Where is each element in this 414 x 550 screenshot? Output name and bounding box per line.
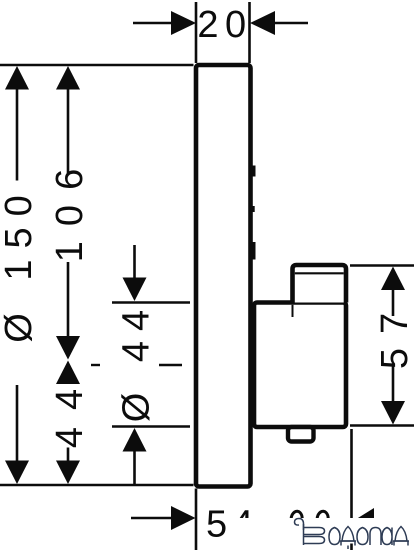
bottom dim: right extension line	[350, 429, 353, 550]
dim 57: lower line	[392, 366, 395, 403]
dim 20: left extension line	[195, 2, 198, 63]
dim 106: top arrow	[56, 66, 80, 90]
dim 106: lower line	[67, 262, 70, 338]
wall plate (side view, 20mm thick)	[196, 65, 251, 487]
bottom dim: leader line	[131, 517, 180, 520]
dim 106/44: bowtie upper arrow	[56, 336, 80, 360]
dim Ø44: bottom tick line	[112, 425, 190, 428]
extension line bottom-left (y485)	[0, 484, 194, 487]
dim 106: upper line	[67, 88, 70, 173]
button chamfer line	[295, 272, 344, 274]
plate edge clip bump 1	[252, 166, 256, 177]
letter е	[382, 528, 392, 546]
knob body (side view)	[254, 303, 346, 428]
letter В body	[304, 524, 325, 545]
svg-text:106: 106	[49, 154, 91, 262]
letter В swash	[295, 519, 304, 531]
letter о	[329, 528, 340, 545]
centerline dash 2	[159, 364, 182, 366]
svg-text:57: 57	[374, 299, 414, 369]
dim 20: left leader line	[133, 22, 180, 25]
dim 44 left: lower line	[67, 448, 70, 463]
dim Ø44: bottom arrow (up)	[123, 428, 147, 452]
bottom tab of knob	[288, 427, 314, 442]
dim 20: right leader line	[266, 22, 308, 25]
letter л	[370, 528, 381, 546]
dim 57: bottom extension line	[350, 424, 414, 427]
dim Ø44: lower line	[133, 450, 136, 485]
bottom dim: left extension line	[195, 489, 198, 550]
dim 20: right arrow	[250, 11, 275, 35]
letter д	[341, 527, 355, 550]
bottom dim: right arrow (half covered)	[352, 508, 375, 532]
dim 106/44: bowtie lower arrow	[56, 361, 80, 385]
svg-text:44: 44	[49, 372, 91, 448]
dim 57: top extension line	[350, 264, 414, 267]
dim Ø150: lower line	[16, 385, 19, 462]
plate edge clip bump 3	[252, 242, 256, 260]
dim Ø44: top arrow (down)	[123, 278, 147, 302]
plate edge clip bump 2	[252, 206, 255, 212]
dim Ø150: top arrow	[5, 66, 29, 90]
watermark white band	[227, 518, 410, 544]
dim 57: upper line	[392, 288, 395, 316]
dim 44 left: bottom arrow	[56, 461, 80, 485]
svg-text:20: 20	[197, 4, 252, 46]
centerline dash 1	[91, 364, 100, 366]
bottom dim: left arrow	[171, 506, 196, 530]
button edge line below joint	[292, 305, 294, 317]
svg-text:Ø 44: Ø 44	[115, 300, 157, 422]
select button on top of knob	[293, 265, 347, 303]
svg-text:Ø 150: Ø 150	[0, 184, 40, 343]
letter й	[394, 527, 408, 546]
dim Ø44: upper line	[133, 245, 136, 279]
bottom dim: label 33	[291, 511, 302, 519]
extension line top-left (y65)	[0, 64, 194, 67]
letter о	[357, 528, 368, 545]
dim 57: top arrow	[381, 267, 405, 291]
watermark Водолей	[295, 519, 410, 550]
dim Ø150: bottom arrow	[5, 461, 29, 485]
dim 57: bottom arrow	[381, 401, 405, 425]
dim 20: left arrow	[171, 11, 196, 35]
dim Ø150: upper line	[16, 88, 19, 181]
dim Ø44: top tick line	[112, 301, 190, 304]
dim 20: right extension line	[248, 2, 251, 63]
